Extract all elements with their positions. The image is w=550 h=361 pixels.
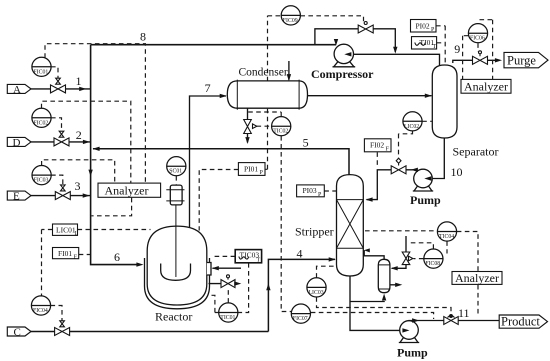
svg-text:TIC04: TIC04 [439, 234, 454, 240]
wire stream 9 purge line [453, 60, 496, 63]
arrow condensate out [395, 283, 402, 287]
svg-text:FIC01: FIC01 [34, 69, 49, 75]
wire signal FIC08 to steam valve actuator [414, 258, 424, 260]
wire signal SC01 to agitator [175, 176, 177, 184]
wire signal FIC01 to valve A [51, 67, 58, 83]
svg-text:FIC06: FIC06 [470, 36, 485, 42]
stripper packing X section [337, 200, 364, 249]
arrow stream7 into condenser [220, 94, 227, 98]
arrow suction into compressor [344, 52, 351, 56]
box Analyzer product [452, 272, 502, 285]
reactor right nozzle [207, 263, 211, 276]
arrow vapor into stripper [364, 248, 370, 252]
wire signal FI02 tap [376, 152, 378, 168]
arrow steam into reboiler [391, 266, 398, 270]
valve stream C [55, 321, 70, 336]
svg-text:FIC09: FIC09 [283, 18, 298, 24]
wire signal Analyzer sample on product line [477, 285, 479, 316]
svg-text:Pump: Pump [397, 346, 428, 360]
arrow stream5 return into header [93, 147, 100, 151]
wire signal TIC02 tap on condensate line [248, 112, 281, 116]
svg-text:9: 9 [454, 42, 460, 56]
svg-text:Product: Product [501, 315, 540, 329]
valve steam [402, 252, 413, 265]
wire stream 4 C-feed riser to stripper [268, 259, 335, 331]
svg-text:FI01: FI01 [58, 249, 72, 258]
wire signal FIC02 to left Analyzer [42, 101, 131, 182]
instrument FIC09 [281, 6, 300, 25]
instrument FIC04 [31, 296, 50, 315]
wire condenser outlet to separator [308, 95, 432, 97]
wire signal FIC06 to purge valve [477, 43, 479, 51]
wire stream 8 recycle header [91, 44, 336, 46]
wire stream 5 stripper overhead return [93, 149, 349, 175]
wire compressor bypass loop [315, 29, 395, 52]
pump product [400, 321, 419, 340]
arrow stream1 into header [79, 87, 86, 91]
arrow stream4 into stripper [329, 257, 336, 261]
svg-text:Analyzer: Analyzer [105, 183, 149, 197]
wire reboiler feed branch [350, 300, 384, 303]
wire signal TIC01 reactor tap [210, 295, 219, 312]
svg-text:2: 2 [76, 128, 82, 142]
arrow into reboiler bottom [382, 294, 386, 301]
wire signal FIC02 to valve D [51, 118, 62, 136]
arrow bypass down [393, 47, 397, 54]
wire condenser cooling inlet drop [288, 61, 290, 80]
wire reactor cooling water outlet [209, 283, 237, 285]
arrow into product pump [402, 328, 409, 332]
svg-text:Stripper: Stripper [295, 225, 334, 239]
display box LIC01 [53, 224, 78, 235]
wire signal FIC03 to valve E [51, 175, 63, 190]
box Analyzer purge [461, 79, 511, 93]
box Analyzer feed [98, 183, 161, 197]
wire signal TIC04 to right Analyzer [457, 232, 478, 272]
valve stream 1 A [51, 78, 66, 93]
arrow product discharge [412, 318, 419, 322]
wire signal PI01 to reactor tap [199, 170, 238, 231]
wire stripper bottoms downcomer [350, 276, 402, 331]
svg-text:D: D [13, 137, 21, 149]
svg-text:T: T [433, 44, 437, 50]
wire stream D feed line [31, 141, 91, 143]
instrument SC01 [167, 157, 186, 176]
arrow header downflow [88, 170, 92, 177]
wire signal LIC01 to FIC04 [42, 230, 53, 296]
instrument TIC02 [272, 117, 291, 136]
wire signal PI02 TI01 taps on separator [436, 26, 445, 64]
instrument TIC04 [437, 222, 456, 241]
arrow coolant into condenser top [287, 74, 291, 81]
svg-text:SC01: SC01 [169, 169, 182, 175]
instrument FIC07 [291, 304, 310, 323]
wire signal FIC07 tap on product line [311, 313, 434, 320]
svg-text:PI01: PI01 [244, 165, 258, 174]
svg-text:6: 6 [114, 250, 120, 264]
svg-text:10: 10 [451, 165, 463, 179]
wire feed mixing vertical line [91, 45, 137, 265]
arrow reactor coolant out [234, 281, 241, 285]
wire stream C feed line [31, 331, 268, 333]
svg-text:11: 11 [458, 306, 470, 320]
wire signal TIC02 down to FIC07 [281, 136, 291, 312]
reboiler vessel [378, 259, 390, 292]
wire reboiler condensate outlet [390, 284, 396, 286]
condenser shell [227, 81, 307, 108]
wire signal FIC01 to left Analyzer [45, 44, 145, 183]
svg-text:LIC01: LIC01 [56, 225, 76, 234]
svg-text:A: A [13, 84, 21, 96]
wire signal TIC04 to FIC08 [446, 241, 448, 253]
display box FI01 [53, 248, 79, 259]
svg-text:TIC02: TIC02 [273, 129, 288, 135]
wire signal FI01 tap [79, 254, 90, 256]
svg-text:FIC08: FIC08 [425, 261, 440, 267]
arrow stream10 into stripper [366, 197, 373, 201]
wire signal PI01 to FIC09 [265, 16, 281, 170]
wire signal left Analyzer sample from stream 6 [92, 198, 132, 216]
svg-text:FIC02: FIC02 [34, 120, 49, 126]
wire stream E feed line [31, 195, 91, 197]
svg-text:C: C [14, 326, 21, 338]
svg-text:Condenser: Condenser [239, 67, 288, 79]
agitator shaft [175, 205, 177, 277]
agitator motor [170, 185, 182, 205]
svg-text:1: 1 [76, 74, 82, 88]
wire stream 11 product line [409, 320, 499, 323]
wire signal LIC03 tap on stripper [317, 266, 337, 278]
display box TI01 [412, 37, 437, 49]
display box PI03 [297, 185, 325, 197]
display box PI02 [411, 20, 437, 33]
wire stream A feed line [31, 88, 91, 90]
svg-text:E: E [13, 191, 20, 203]
svg-text:FIC07: FIC07 [293, 316, 308, 322]
svg-text:Pump: Pump [410, 193, 441, 207]
instrument FIC02 [32, 108, 51, 127]
display box PI01 [238, 163, 265, 176]
svg-text:Analyzer: Analyzer [455, 271, 499, 285]
wire signal FIC09 to bypass valve [300, 16, 363, 22]
wire signal TIC03 to reactor tap [212, 255, 236, 257]
svg-text:LIC02: LIC02 [404, 124, 419, 130]
svg-text:FIC03: FIC03 [34, 178, 49, 184]
wire signal LIC02 to stream 10 valve [399, 131, 413, 162]
svg-text:7: 7 [205, 81, 211, 95]
svg-text:LIC03: LIC03 [309, 290, 324, 296]
wire separator overhead to compressor suction [346, 54, 440, 65]
svg-text:T: T [257, 258, 261, 264]
arrow recycle8 into compressor [334, 39, 338, 46]
wire reactor cooling water inlet [213, 267, 242, 269]
wire signal TIC02 to condenser valve [257, 125, 272, 127]
wire signal FIC08 to steam valve stem [408, 243, 433, 249]
wire signal FIC06 to purge Analyzer left [463, 36, 469, 79]
display box FI02 [364, 139, 391, 152]
svg-text:Compressor: Compressor [311, 67, 374, 81]
compressor circle [334, 44, 353, 63]
svg-text:Reactor: Reactor [155, 310, 192, 324]
valve purge [473, 54, 488, 65]
arrow coolant into reactor [212, 266, 219, 270]
arrow into sep pump [424, 176, 431, 180]
wire signal TIC01 to reactor valve [227, 289, 229, 303]
svg-text:FIC04: FIC04 [33, 308, 48, 314]
svg-text:8: 8 [140, 30, 146, 44]
feed flag D [7, 137, 31, 146]
arrow condensate down [245, 137, 249, 144]
instrument FIC01 [32, 57, 51, 76]
wire separator bottoms to pump [433, 138, 445, 179]
pump separator underflow [414, 169, 433, 188]
svg-text:5: 5 [303, 136, 309, 150]
arrow stream2 into header [83, 140, 90, 144]
svg-text:3: 3 [75, 179, 81, 193]
arrow into separator [425, 94, 432, 98]
wire signal FIC04 to valve C [51, 306, 63, 326]
wire signal PI03 tap [324, 190, 336, 192]
valve compressor bypass [358, 25, 373, 33]
wire signal TIC03 to TIC01 [238, 263, 249, 313]
svg-text:L: L [75, 231, 79, 237]
svg-text:4: 4 [297, 247, 303, 261]
product flag Product [499, 315, 547, 328]
valve condenser cooling [244, 120, 257, 134]
wire signal LIC03 to product valve [317, 297, 452, 313]
instrument FIC03 [32, 166, 51, 185]
wire stream 7 reactor overhead to condenser [190, 96, 227, 228]
reactor internal holdup U [161, 264, 191, 281]
svg-text:PI02: PI02 [416, 21, 430, 30]
svg-text:Analyzer: Analyzer [464, 79, 508, 93]
svg-text:TIC01: TIC01 [220, 315, 235, 321]
wire steam valve to reboiler [392, 265, 406, 269]
stripper vessel [337, 175, 364, 276]
svg-text:PI03: PI03 [303, 186, 317, 195]
wire condensate valve drop below condenser [247, 108, 249, 142]
arrow pump1 discharge [411, 168, 418, 172]
svg-text:FI02: FI02 [370, 141, 384, 150]
display box TIC03 [235, 250, 261, 263]
valve stream 2 D [54, 131, 69, 146]
instrument FIC06 [468, 24, 487, 43]
wire reboiler vapor return to stripper [364, 250, 384, 259]
product flag Purge [504, 52, 548, 67]
separator vessel [432, 65, 457, 138]
arrow purge out [495, 58, 502, 62]
wire stream 10 pump discharge to stripper [367, 170, 415, 200]
arrow stream3 into header [83, 193, 90, 197]
arrow C riser up [266, 283, 270, 290]
valve reactor cooling [221, 278, 235, 288]
instrument LIC02 [403, 112, 422, 131]
valve product [444, 316, 458, 325]
wire signal FIC06 to purge Analyzer right [480, 20, 493, 79]
reactor vessel with jacket [145, 258, 210, 309]
wire signal FIC03 to left Analyzer [42, 160, 115, 183]
valve stream 3 E [55, 185, 70, 200]
arrow stream6 into reactor [136, 262, 143, 266]
feed flag E [7, 191, 31, 200]
instrument FIC08 [424, 249, 443, 268]
wire steam valve actuator stem [405, 236, 407, 252]
wire signal LIC01 to reactor [78, 229, 151, 231]
wire signal LIC02 tap on separator [422, 120, 432, 122]
instrument LIC03 [307, 278, 326, 297]
valve stream 10 [391, 158, 406, 174]
wire signal stripper temp tap to TIC04 [365, 230, 437, 232]
instrument TIC01 [219, 303, 238, 322]
svg-text:Separator: Separator [453, 145, 499, 159]
feed flag C [7, 327, 31, 336]
svg-text:Purge: Purge [507, 53, 536, 67]
feed flag A [7, 84, 31, 93]
